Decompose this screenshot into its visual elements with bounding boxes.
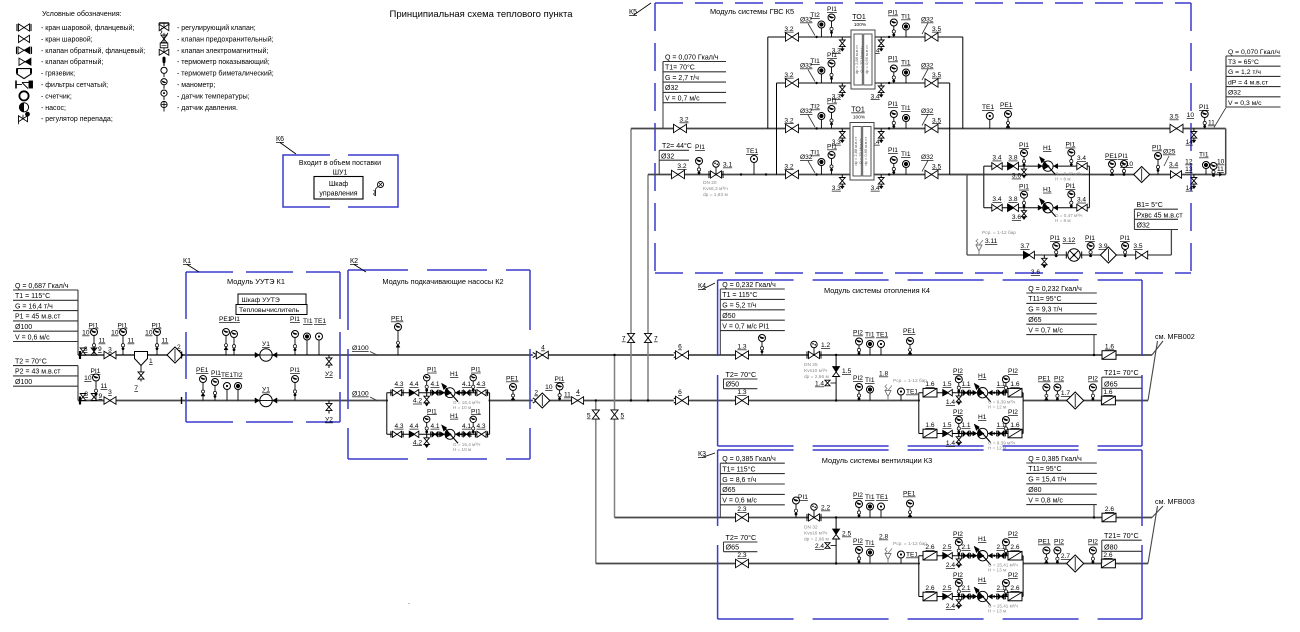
svg-text:TE1: TE1	[746, 148, 758, 155]
svg-text:Модуль подкачивающие насосы К2: Модуль подкачивающие насосы К2	[382, 277, 503, 286]
svg-text:Ø32: Ø32	[921, 63, 934, 70]
svg-text:1.3: 1.3	[737, 389, 746, 396]
svg-text:H1: H1	[450, 371, 459, 378]
svg-text:1.4: 1.4	[946, 440, 955, 447]
svg-text:Ø80: Ø80	[1028, 487, 1041, 494]
svg-text:Шкаф: Шкаф	[329, 181, 349, 188]
svg-text:4.1: 4.1	[430, 381, 439, 388]
svg-text:1.7: 1.7	[1061, 390, 1070, 397]
svg-text:PI2: PI2	[953, 409, 963, 416]
svg-text:TO1: TO1	[852, 14, 866, 21]
svg-text:3.4: 3.4	[1077, 197, 1086, 204]
svg-text:управления: управления	[319, 191, 357, 198]
svg-text:V = 0,7 м/с PI1: V = 0,7 м/с PI1	[722, 323, 769, 330]
svg-text:3.2: 3.2	[677, 163, 686, 170]
svg-text:3.6: 3.6	[1031, 269, 1040, 276]
svg-text:TE1: TE1	[906, 552, 918, 559]
svg-text:4.3: 4.3	[476, 423, 485, 430]
svg-text:4.3: 4.3	[476, 381, 485, 388]
svg-text:3.5: 3.5	[1170, 114, 1179, 121]
svg-text:V = 0,8 м/с: V = 0,8 м/с	[1028, 497, 1063, 504]
svg-text:Модуль системы отопления К4: Модуль системы отопления К4	[824, 286, 930, 295]
svg-text:B1= 5°C: B1= 5°C	[1137, 201, 1163, 209]
svg-text:PI2: PI2	[953, 572, 963, 579]
svg-text:P2 = 43 м.в.ст: P2 = 43 м.в.ст	[15, 369, 61, 376]
svg-text:1.6: 1.6	[925, 381, 934, 388]
svg-text:1.8: 1.8	[879, 371, 888, 378]
svg-text:1.5: 1.5	[842, 368, 851, 375]
svg-text:1.4: 1.4	[946, 399, 955, 406]
svg-text:10: 10	[1217, 159, 1225, 166]
svg-text:TI1: TI1	[303, 318, 313, 325]
svg-text:12: 12	[1185, 159, 1193, 166]
svg-text:3.4: 3.4	[1169, 162, 1178, 169]
svg-text:H = 8 м: H = 8 м	[1055, 177, 1071, 182]
svg-text:TI1: TI1	[901, 60, 911, 67]
svg-text:1.5: 1.5	[942, 381, 951, 388]
svg-text:Q = 0,687 Гкал/ч: Q = 0,687 Гкал/ч	[15, 283, 69, 290]
svg-text:PI1: PI1	[211, 370, 221, 377]
svg-text:- клапан предохранительный;: - клапан предохранительный;	[177, 35, 274, 43]
svg-text:TI1: TI1	[810, 58, 820, 65]
svg-text:TI1: TI1	[865, 332, 875, 339]
svg-text:Ø32: Ø32	[661, 153, 674, 160]
svg-text:3.12: 3.12	[1063, 237, 1076, 244]
svg-text:Ø32: Ø32	[665, 85, 678, 92]
svg-text:V = 0,6 м/с: V = 0,6 м/с	[722, 498, 757, 505]
svg-text:2.6: 2.6	[1105, 506, 1114, 513]
svg-text:PE1: PE1	[1038, 376, 1051, 383]
svg-text:T2= 70°C: T2= 70°C	[726, 370, 757, 379]
svg-text:3.10: 3.10	[1120, 161, 1133, 168]
svg-text:PI1: PI1	[1120, 235, 1130, 242]
svg-text:3: 3	[108, 389, 112, 396]
svg-text:5: 5	[587, 413, 591, 420]
svg-text:- термометр показывающий;: - термометр показывающий;	[177, 58, 270, 66]
svg-text:Ø25: Ø25	[1163, 149, 1176, 156]
svg-text:Kvs16 м³/ч: Kvs16 м³/ч	[804, 531, 828, 537]
svg-text:1.6: 1.6	[1103, 389, 1112, 396]
svg-text:10: 10	[84, 375, 92, 382]
svg-text:Ø100: Ø100	[15, 379, 32, 386]
svg-text:PI1: PI1	[888, 10, 898, 17]
svg-text:13: 13	[1185, 166, 1193, 173]
svg-text:Условные обозначения:: Условные обозначения:	[42, 9, 122, 18]
svg-text:3.4: 3.4	[871, 93, 880, 100]
svg-text:2.2: 2.2	[821, 505, 830, 512]
svg-text:- насос;: - насос;	[41, 105, 66, 112]
svg-text:3.3: 3.3	[832, 185, 841, 192]
svg-text:К2: К2	[350, 258, 358, 265]
svg-text:11: 11	[564, 392, 571, 399]
svg-text:PI1: PI1	[290, 367, 300, 374]
svg-text:1: 1	[149, 358, 153, 365]
svg-text:3.6: 3.6	[1012, 173, 1021, 180]
svg-text:T1= 70°C: T1= 70°C	[665, 64, 695, 72]
svg-text:Ø65: Ø65	[726, 543, 740, 552]
svg-text:TI1: TI1	[901, 105, 911, 112]
svg-text:8: 8	[84, 391, 88, 398]
svg-text:PI1: PI1	[427, 367, 437, 374]
svg-text:Q = 0,070 Гкал/ч: Q = 0,070 Гкал/ч	[1228, 49, 1280, 56]
svg-text:H1: H1	[978, 373, 987, 380]
svg-text:T21= 70°C: T21= 70°C	[1104, 531, 1139, 540]
svg-text:Рср. = 1-12 бар: Рср. = 1-12 бар	[982, 230, 1016, 236]
svg-text:V = 0,6 м/с: V = 0,6 м/с	[15, 334, 50, 341]
svg-text:7: 7	[654, 336, 658, 343]
svg-text:H = 8 м: H = 8 м	[1055, 218, 1071, 223]
svg-text:9: 9	[99, 393, 103, 400]
svg-text:H = 10 м: H = 10 м	[453, 405, 471, 410]
svg-text:Q = 0,232 Гкал/ч: Q = 0,232 Гкал/ч	[1028, 286, 1082, 293]
svg-text:3.11: 3.11	[985, 238, 998, 245]
svg-text:TI2: TI2	[810, 12, 820, 19]
svg-text:- регулирующий клапан;: - регулирующий клапан;	[177, 24, 256, 32]
svg-text:11: 11	[128, 338, 135, 345]
svg-text:PI2: PI2	[1008, 572, 1018, 579]
svg-text:3.7: 3.7	[1020, 243, 1029, 250]
svg-text:- фильтры сетчатый;: - фильтры сетчатый;	[41, 81, 108, 89]
svg-text:11: 11	[101, 383, 108, 390]
svg-text:PI1: PI1	[888, 101, 898, 108]
svg-text:dр = 0,66 м.в.ст: dр = 0,66 м.в.ст	[863, 137, 868, 166]
svg-text:dр = 0,66 м.в.ст: dр = 0,66 м.в.ст	[864, 45, 869, 74]
svg-text:3.8: 3.8	[1008, 155, 1017, 162]
svg-text:Q = 0,232 Гкал/ч: Q = 0,232 Гкал/ч	[722, 282, 776, 289]
svg-text:H = 13 м: H = 13 м	[988, 568, 1006, 573]
svg-text:Ø50: Ø50	[722, 313, 735, 320]
svg-text:10: 10	[111, 330, 119, 337]
svg-text:Рср. = 1-12 бар: Рср. = 1-12 бар	[893, 541, 927, 547]
svg-text:1.3: 1.3	[737, 344, 746, 351]
svg-text:3.2: 3.2	[679, 117, 688, 124]
svg-text:PI2: PI2	[853, 375, 863, 382]
svg-text:2.5: 2.5	[942, 544, 951, 551]
svg-text:- грязевик;: - грязевик;	[41, 71, 75, 78]
svg-text:2.3: 2.3	[737, 552, 746, 559]
svg-text:Ø65: Ø65	[722, 487, 735, 494]
svg-text:3.2: 3.2	[784, 26, 793, 33]
svg-text:H1: H1	[450, 413, 459, 420]
svg-text:3: 3	[108, 347, 112, 354]
svg-text:100%: 100%	[853, 115, 866, 121]
svg-text:1.1: 1.1	[961, 422, 970, 429]
svg-text:2.6: 2.6	[925, 585, 934, 592]
svg-text:4.2: 4.2	[413, 439, 422, 446]
svg-text:10: 10	[145, 330, 153, 337]
svg-text:dр = 1,63 м: dр = 1,63 м	[703, 192, 728, 198]
svg-text:10: 10	[82, 330, 90, 337]
svg-text:К4: К4	[698, 283, 706, 290]
svg-text:ШУ1: ШУ1	[333, 170, 348, 177]
svg-text:9: 9	[98, 346, 102, 353]
svg-text:10: 10	[545, 384, 553, 391]
svg-text:11: 11	[99, 338, 106, 345]
svg-text:1.5: 1.5	[942, 422, 951, 429]
svg-text:PI1: PI1	[1050, 235, 1060, 242]
svg-text:У2: У2	[325, 417, 333, 424]
svg-text:TI1: TI1	[1199, 152, 1209, 159]
svg-text:см. MFB002: см. MFB002	[1155, 332, 1195, 341]
svg-text:Q = 0,385 Гкал/ч: Q = 0,385 Гкал/ч	[722, 456, 776, 463]
svg-text:V = 0,7 м/с: V = 0,7 м/с	[665, 96, 700, 103]
svg-text:К6: К6	[276, 136, 284, 143]
svg-text:H1: H1	[978, 414, 987, 421]
svg-text:TE1: TE1	[221, 372, 233, 379]
svg-text:1.1: 1.1	[961, 381, 970, 388]
svg-text:- клапан обратный, фланцевый;: - клапан обратный, фланцевый;	[41, 47, 145, 55]
svg-text:TE1: TE1	[314, 318, 326, 325]
svg-text:DN 25: DN 25	[804, 362, 818, 368]
svg-text:2.6: 2.6	[1010, 544, 1019, 551]
svg-text:Модуль системы ГВС К5: Модуль системы ГВС К5	[710, 7, 794, 16]
svg-text:T11= 95°C: T11= 95°C	[1028, 465, 1061, 473]
svg-text:TI1: TI1	[865, 377, 875, 384]
svg-text:TE1: TE1	[876, 332, 888, 339]
svg-text:H = 12 м: H = 12 м	[988, 405, 1006, 410]
svg-text:Модуль УУТЭ К1: Модуль УУТЭ К1	[227, 277, 285, 286]
svg-text:.: .	[408, 599, 410, 606]
svg-text:2.4: 2.4	[815, 543, 824, 550]
svg-text:У2: У2	[325, 371, 333, 378]
svg-text:2.6: 2.6	[925, 544, 934, 551]
svg-text:3.5: 3.5	[932, 163, 941, 170]
svg-text:PI2: PI2	[1008, 368, 1018, 375]
svg-text:2.6: 2.6	[1010, 585, 1019, 592]
svg-text:- клапан обратный;: - клапан обратный;	[41, 58, 103, 66]
svg-text:- кран шаровой, фланцевый;: - кран шаровой, фланцевый;	[41, 24, 134, 32]
svg-text:2.1: 2.1	[961, 544, 970, 551]
svg-text:3.8: 3.8	[1008, 196, 1017, 203]
svg-text:2.4: 2.4	[946, 603, 955, 610]
svg-text:3.5: 3.5	[932, 26, 941, 33]
svg-text:G = 2,7 т/ч: G = 2,7 т/ч	[665, 75, 699, 82]
svg-text:T21= 70°C: T21= 70°C	[1104, 368, 1139, 377]
svg-text:G = 8,6 т/ч: G = 8,6 т/ч	[722, 477, 756, 484]
svg-text:3.4: 3.4	[871, 185, 880, 192]
svg-text:4.3: 4.3	[394, 423, 403, 430]
svg-text:Kvs10 м³/ч: Kvs10 м³/ч	[804, 368, 828, 374]
svg-text:Ø80: Ø80	[1104, 542, 1118, 551]
svg-text:T1 = 115°C: T1 = 115°C	[722, 291, 757, 299]
svg-text:V = 0,7 м/с: V = 0,7 м/с	[1028, 327, 1063, 334]
svg-text:2.3: 2.3	[737, 506, 746, 513]
svg-text:PI1: PI1	[888, 56, 898, 63]
svg-text:V = 0,3 м/с: V = 0,3 м/с	[1228, 100, 1262, 107]
svg-text:PI1: PI1	[695, 144, 705, 151]
svg-text:PI2: PI2	[853, 538, 863, 545]
svg-text:Q = 0,070 Гкал/ч: Q = 0,070 Гкал/ч	[665, 54, 719, 61]
svg-text:PI2: PI2	[1008, 531, 1018, 538]
svg-text:У1: У1	[262, 387, 270, 394]
svg-text:11: 11	[162, 338, 169, 345]
svg-text:PI1: PI1	[1019, 184, 1029, 191]
svg-text:PI2: PI2	[1054, 539, 1064, 546]
svg-text:PE1: PE1	[391, 316, 404, 323]
svg-text:TE1: TE1	[906, 389, 918, 396]
svg-text:2.1: 2.1	[961, 585, 970, 592]
svg-text:TI1: TI1	[865, 540, 875, 547]
svg-text:Ø65: Ø65	[1104, 379, 1118, 388]
svg-text:PI2: PI2	[853, 492, 863, 499]
svg-text:Рср. = 1-12 бар: Рср. = 1-12 бар	[893, 378, 927, 384]
svg-text:3.2: 3.2	[784, 72, 793, 79]
svg-text:- датчик температуры;: - датчик температуры;	[177, 93, 250, 100]
svg-text:PI1: PI1	[555, 376, 565, 383]
svg-text:Q = 0,385 Гкал/ч: Q = 0,385 Гкал/ч	[1028, 456, 1082, 463]
svg-text:1.6: 1.6	[1105, 344, 1114, 351]
svg-text:T1 = 115°C: T1 = 115°C	[15, 292, 50, 300]
svg-text:2.5: 2.5	[942, 585, 951, 592]
svg-text:У1: У1	[262, 341, 270, 348]
svg-text:PE1: PE1	[196, 367, 209, 374]
svg-text:3.5: 3.5	[1133, 243, 1142, 250]
svg-text:4.1: 4.1	[462, 423, 471, 430]
svg-text:TI1: TI1	[865, 494, 875, 501]
svg-text:3.6: 3.6	[1012, 214, 1021, 221]
svg-text:- кран шаровой;: - кран шаровой;	[41, 35, 93, 43]
svg-text:3.2: 3.2	[784, 163, 793, 170]
svg-text:6: 6	[678, 344, 682, 351]
svg-text:P1 = 45 м.в.ст: P1 = 45 м.в.ст	[15, 314, 61, 321]
svg-text:PI2: PI2	[953, 531, 963, 538]
svg-text:Ø100: Ø100	[15, 324, 32, 331]
svg-text:T3 = 65°C: T3 = 65°C	[1228, 58, 1259, 66]
svg-text:Kvs6,3 м³/ч: Kvs6,3 м³/ч	[703, 186, 728, 192]
svg-text:4.3: 4.3	[394, 381, 403, 388]
svg-text:10: 10	[1187, 112, 1195, 119]
svg-text:T11= 95°C: T11= 95°C	[1028, 295, 1061, 303]
svg-text:Рхвс 45 м.в.ст: Рхвс 45 м.в.ст	[1137, 212, 1184, 219]
svg-text:PI2: PI2	[1088, 376, 1098, 383]
svg-text:H1: H1	[1043, 187, 1052, 194]
svg-text:PE1: PE1	[903, 491, 916, 498]
svg-text:Ø32: Ø32	[921, 154, 934, 161]
svg-text:14: 14	[1186, 185, 1194, 192]
svg-text:G = 1,2 т/ч: G = 1,2 т/ч	[1228, 69, 1261, 76]
svg-text:11: 11	[1217, 166, 1224, 173]
svg-text:2.7: 2.7	[1061, 553, 1070, 560]
svg-text:Тепловычислитель: Тепловычислитель	[239, 307, 300, 314]
svg-text:- клапан электромагнитный;: - клапан электромагнитный;	[177, 47, 268, 55]
svg-text:Ø100: Ø100	[352, 345, 369, 352]
svg-text:Модуль системы вентиляции К3: Модуль системы вентиляции К3	[822, 456, 932, 465]
svg-text:3.1: 3.1	[723, 162, 732, 169]
svg-text:TI1: TI1	[901, 151, 911, 158]
svg-text:Ø50: Ø50	[726, 380, 740, 389]
svg-text:PI1: PI1	[1019, 142, 1029, 149]
svg-text:TO1: TO1	[851, 107, 865, 114]
svg-text:Ø32: Ø32	[921, 108, 934, 115]
svg-text:4.1: 4.1	[430, 423, 439, 430]
svg-text:PI1: PI1	[1066, 142, 1076, 149]
svg-text:8: 8	[84, 346, 88, 353]
svg-text:G = 9,3 т/ч: G = 9,3 т/ч	[1028, 307, 1062, 314]
svg-text:PI1: PI1	[827, 6, 837, 13]
svg-text:T2= 70°C: T2= 70°C	[726, 533, 757, 542]
svg-text:Ø100: Ø100	[352, 391, 369, 398]
svg-text:- датчик давления.: - датчик давления.	[177, 105, 238, 112]
svg-text:4.1: 4.1	[462, 381, 471, 388]
svg-text:3.4: 3.4	[992, 196, 1001, 203]
svg-text:DN 32: DN 32	[804, 525, 818, 531]
svg-text:PI1: PI1	[471, 367, 481, 374]
svg-text:Ø32: Ø32	[1228, 90, 1241, 97]
svg-text:TI1: TI1	[810, 150, 820, 157]
svg-text:PI1: PI1	[827, 52, 837, 59]
svg-text:1.6: 1.6	[925, 422, 934, 429]
svg-text:H1: H1	[978, 577, 987, 584]
svg-text:PE1: PE1	[1105, 153, 1118, 160]
svg-text:PI1: PI1	[888, 147, 898, 154]
svg-text:PI2: PI2	[853, 330, 863, 337]
svg-text:1.2: 1.2	[821, 342, 830, 349]
svg-text:T2= 44°C: T2= 44°C	[662, 142, 692, 150]
svg-text:4.4: 4.4	[409, 423, 418, 430]
svg-text:3.5: 3.5	[932, 72, 941, 79]
svg-text:T2 = 70°C: T2 = 70°C	[15, 357, 47, 365]
svg-text:TE1: TE1	[982, 104, 994, 111]
svg-text:H1: H1	[1043, 145, 1052, 152]
svg-text:- термометр биметалический;: - термометр биметалический;	[177, 70, 274, 78]
svg-text:4: 4	[541, 345, 545, 352]
svg-text:- регулятор перепада;: - регулятор перепада;	[41, 116, 113, 123]
svg-text:PI1: PI1	[1199, 104, 1209, 111]
svg-text:2.8: 2.8	[879, 534, 888, 541]
svg-text:5: 5	[621, 413, 625, 420]
svg-text:4.4: 4.4	[409, 381, 418, 388]
svg-text:T1= 115°C: T1= 115°C	[722, 465, 755, 473]
svg-text:14: 14	[1186, 139, 1194, 146]
svg-text:PI1: PI1	[230, 316, 240, 323]
svg-text:TE1: TE1	[876, 494, 888, 501]
svg-text:3.4: 3.4	[1077, 155, 1086, 162]
svg-text:Входит в объем поставки: Входит в объем поставки	[299, 159, 381, 167]
svg-text:G = 16,4 т/ч: G = 16,4 т/ч	[15, 303, 53, 310]
svg-text:1.4: 1.4	[815, 381, 824, 388]
svg-text:dP = 4 м.в.ст: dP = 4 м.в.ст	[1228, 79, 1268, 86]
svg-text:H1: H1	[978, 536, 987, 543]
svg-text:PI1: PI1	[290, 316, 300, 323]
svg-text:100%: 100%	[854, 22, 867, 28]
svg-text:TI2: TI2	[233, 372, 243, 379]
svg-text:TI1: TI1	[901, 14, 911, 21]
svg-text:11: 11	[1208, 120, 1215, 127]
svg-text:H = 10 м: H = 10 м	[453, 447, 471, 452]
svg-text:см. MFB003: см. MFB003	[1155, 497, 1195, 506]
svg-text:4: 4	[576, 389, 580, 396]
svg-text:3.5: 3.5	[932, 117, 941, 124]
svg-text:Ø32: Ø32	[1137, 223, 1150, 230]
svg-text:- счетчик;: - счетчик;	[41, 93, 72, 100]
svg-text:G = 15,4 т/ч: G = 15,4 т/ч	[1028, 477, 1066, 484]
svg-text:G = 5,2 т/ч: G = 5,2 т/ч	[722, 303, 756, 310]
svg-text:Принципиальная схема теплового: Принципиальная схема теплового пункта	[389, 9, 573, 20]
svg-text:dр = 2,96 м: dр = 2,96 м	[804, 537, 829, 543]
svg-text:PI2: PI2	[1054, 376, 1064, 383]
svg-text:PI2: PI2	[1008, 409, 1018, 416]
svg-text:PI2: PI2	[953, 368, 963, 375]
svg-text:2.6: 2.6	[1103, 552, 1112, 559]
svg-text:7: 7	[622, 336, 626, 343]
svg-text:PE1: PE1	[1038, 539, 1051, 546]
svg-text:PI1: PI1	[827, 144, 837, 151]
svg-text:6: 6	[678, 389, 682, 396]
svg-text:H = 13 м: H = 13 м	[988, 609, 1006, 614]
svg-text:PI1: PI1	[427, 408, 437, 415]
svg-text:PI2: PI2	[1088, 539, 1098, 546]
svg-text:PI1: PI1	[471, 408, 481, 415]
